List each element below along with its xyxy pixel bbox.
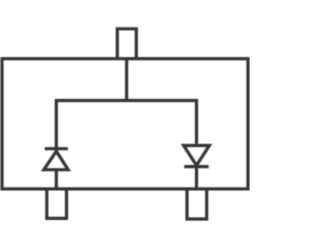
- diode D2: [184, 146, 210, 166]
- diode D1: [44, 151, 68, 169]
- pin 1 (bottom left): [47, 189, 67, 219]
- wire junction branch to both diodes: [56, 101, 196, 152]
- wire D1 anode to pin 1: [55, 170, 58, 189]
- wire top pin to junction: [125, 59, 128, 101]
- package outline: [2, 59, 248, 189]
- wire D2 cathode to pin 2: [195, 165, 198, 189]
- diode D2 cathode bar: [184, 165, 208, 168]
- pin 3 (top): [117, 29, 136, 59]
- pin 2 (bottom right): [187, 189, 207, 219]
- diode D1 cathode bar: [45, 147, 68, 150]
